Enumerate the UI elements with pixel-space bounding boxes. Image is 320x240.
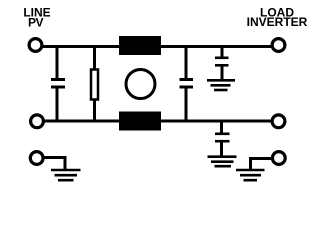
terminal load-bottom (open circle)	[272, 115, 285, 128]
ground (top, below C3)	[207, 80, 235, 90]
ground (below C4)	[208, 157, 237, 167]
ground (earth-right)	[236, 170, 265, 180]
terminal earth-left (open circle)	[30, 152, 43, 165]
terminal earth-right (open circle)	[272, 152, 285, 165]
capacitor C4 (Y-cap bottom)	[215, 121, 230, 156]
terminal load-top (open circle)	[272, 39, 285, 52]
ground (earth-left)	[51, 170, 81, 180]
capacitor C3 (Y-cap top)	[215, 47, 229, 80]
resistor R1 (bleeder, open box)	[91, 47, 98, 122]
terminal line-bottom (open circle)	[31, 115, 44, 128]
terminal line-top (open circle)	[29, 39, 42, 52]
label LOAD / INVERTER	[247, 5, 308, 29]
label LINE / PV	[23, 5, 50, 29]
choke core circle (between windings)	[126, 70, 155, 99]
svg-text:PV: PV	[28, 15, 44, 29]
wire earth-left stub	[44, 158, 67, 170]
wire earth-right stub	[249, 159, 271, 170]
inductor L2 (bottom, filled box)	[119, 112, 161, 131]
capacitor C2 (X-cap right)	[180, 47, 194, 122]
wire top bus	[43, 45, 271, 48]
capacitor C1 (X-cap left)	[51, 47, 65, 122]
wire bottom bus	[45, 120, 272, 123]
inductor L1 (top, filled box)	[119, 36, 161, 55]
svg-text:INVERTER: INVERTER	[247, 15, 308, 29]
